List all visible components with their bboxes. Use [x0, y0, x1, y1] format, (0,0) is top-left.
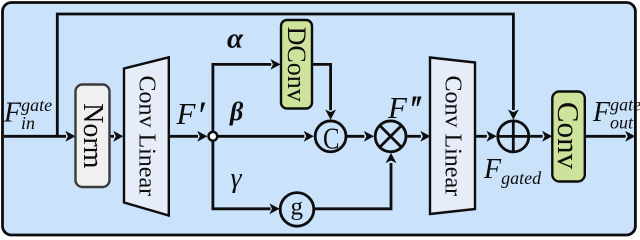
node F' (split point)	[209, 132, 218, 141]
arrowhead: output	[625, 131, 635, 142]
arrowhead: into DConv	[270, 59, 280, 70]
wire: Conv Linear 2 to add	[475, 135, 487, 138]
svg-text:Conv: Conv	[551, 102, 586, 170]
wire: DConv to C	[312, 64, 331, 110]
arrowhead: into Conv Linear 1	[113, 131, 123, 142]
Norm box	[76, 85, 110, 188]
svg-text:DConv: DConv	[282, 27, 311, 102]
wire: gamma branch to g	[213, 136, 271, 209]
svg-text:Conv Linear: Conv Linear	[134, 75, 160, 196]
wire: input to Norm	[4, 135, 66, 138]
svg-text:g: g	[291, 194, 304, 221]
svg-text:α: α	[227, 23, 244, 55]
svg-text:C: C	[323, 120, 340, 155]
arrowhead: g up into multiply	[386, 153, 397, 163]
concat circle C	[315, 121, 346, 152]
wire: Norm to Conv Linear 1	[110, 135, 114, 138]
arrowhead: into g	[269, 203, 279, 214]
wire: g to multiply	[314, 163, 391, 209]
arrowhead: into multiply	[364, 131, 374, 142]
wire: Conv to output	[585, 135, 626, 138]
svg-text:in: in	[21, 113, 35, 133]
wire: Conv Linear 1 to node F'	[169, 135, 198, 138]
arrowhead: into C	[304, 131, 314, 142]
arrowhead: into Conv	[542, 131, 552, 142]
arrowhead: into Norm	[65, 131, 75, 142]
wire: beta branch to C	[213, 135, 304, 138]
svg-text:Conv Linear: Conv Linear	[440, 75, 466, 196]
wire: alpha branch to DConv	[213, 64, 271, 136]
Conv Linear 1 trapezoid	[124, 57, 169, 215]
multiply circle	[375, 121, 406, 152]
Conv box	[552, 92, 585, 182]
wire: add to Conv	[530, 135, 543, 138]
add circle	[498, 121, 529, 152]
arrowhead: into Conv Linear 2	[420, 131, 430, 142]
gate circle g	[280, 193, 314, 227]
svg-text:out: out	[610, 113, 634, 133]
svg-text:γ: γ	[230, 163, 242, 194]
arrowhead: skip down into add	[508, 110, 519, 120]
DConv box	[281, 20, 312, 109]
svg-text:Norm: Norm	[77, 103, 108, 169]
wire: C to multiply	[347, 135, 364, 138]
Conv Linear 2 trapezoid	[430, 58, 475, 215]
arrowhead: into add	[487, 131, 497, 142]
arrowhead: DConv down into C	[325, 110, 336, 120]
wire: multiply to Conv Linear 2	[407, 135, 421, 138]
arrowhead: into node F'	[197, 131, 207, 142]
svg-text:β: β	[229, 97, 244, 126]
wire: skip connection (residual)	[57, 14, 513, 136]
